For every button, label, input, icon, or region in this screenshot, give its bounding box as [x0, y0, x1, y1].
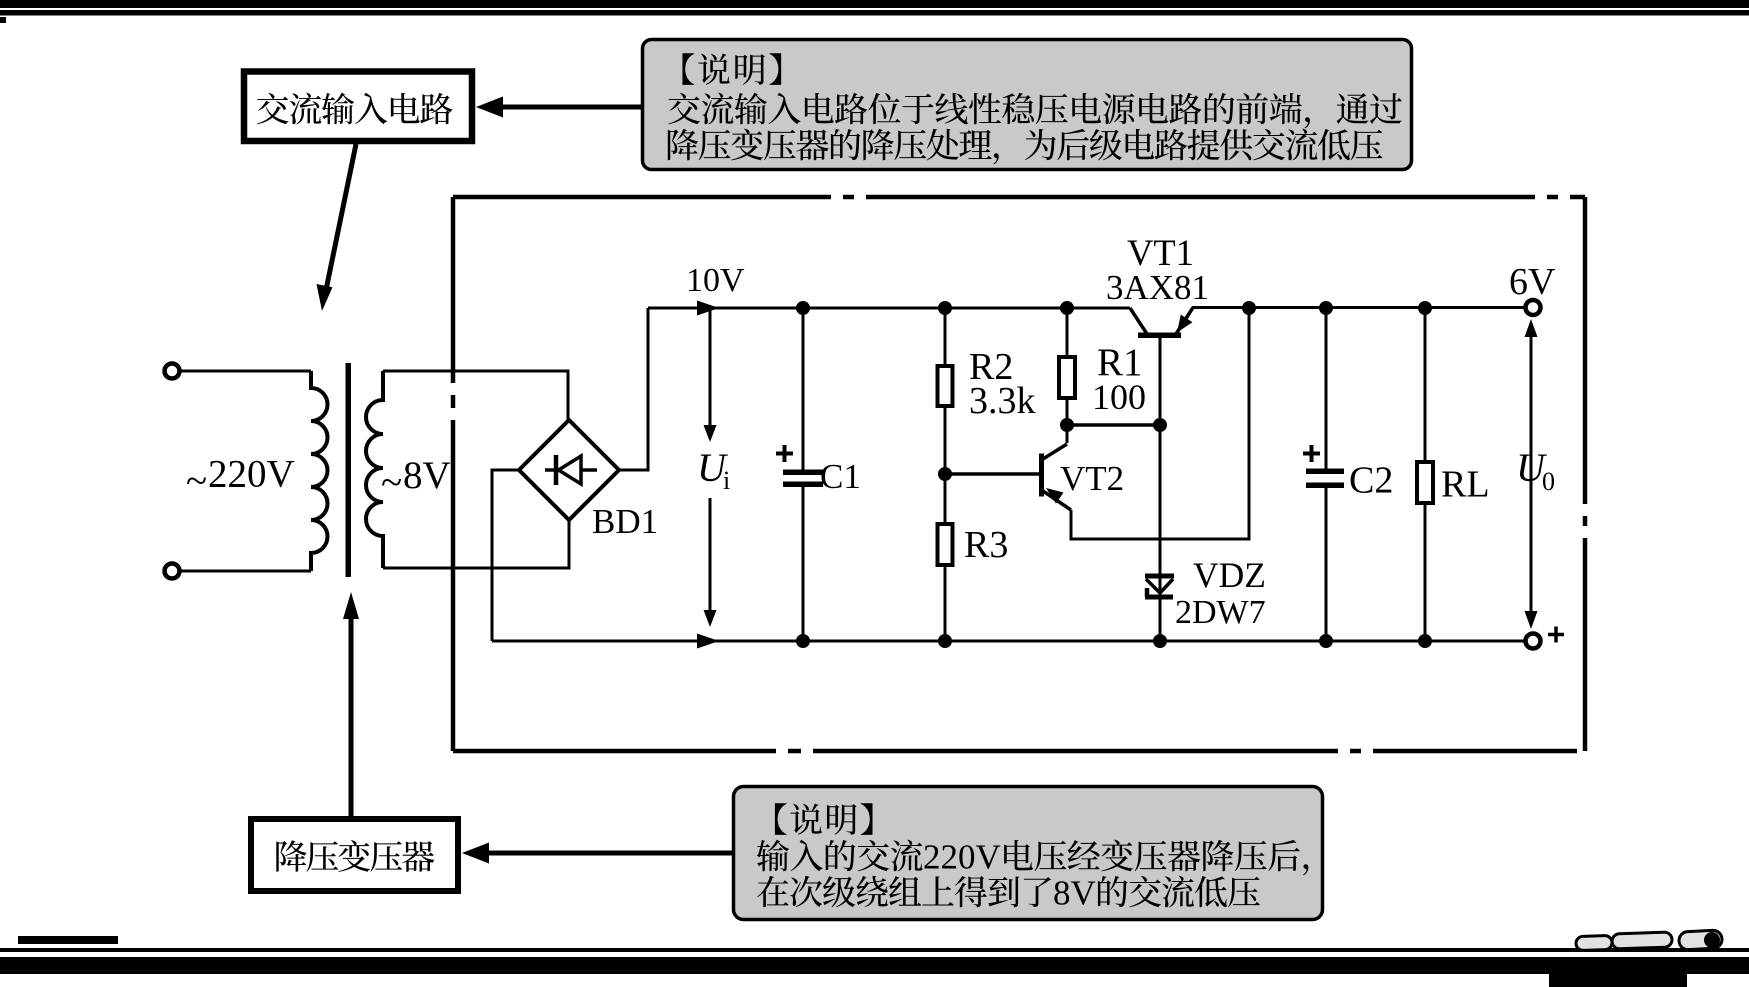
junction dot RL top	[1418, 301, 1432, 315]
wire VT2 base	[945, 472, 1039, 476]
transistor VT2	[1039, 444, 1071, 510]
svg-text:RL: RL	[1441, 464, 1490, 506]
capacitor C1	[783, 308, 823, 641]
svg-text:i: i	[723, 466, 730, 495]
wire R1 bottom to VT1 base line	[1067, 423, 1160, 427]
svg-text:~: ~	[186, 460, 207, 503]
wire R2 chain	[944, 308, 947, 641]
svg-text:BD1: BD1	[592, 502, 658, 541]
resistor R2	[938, 366, 953, 406]
zener diode VDZ	[1145, 573, 1174, 641]
svg-text:C2: C2	[1349, 460, 1393, 502]
wire: secondary bottom to bridge	[383, 519, 569, 568]
top border bar	[0, 0, 1749, 23]
load resistor RL	[1417, 308, 1433, 641]
svg-text:220V: 220V	[923, 838, 1001, 877]
arrow from AC input label to transformer	[317, 144, 357, 311]
arrow from callout 1 to AC input label	[476, 97, 642, 118]
C1 plus sign	[776, 445, 793, 462]
svg-text:0: 0	[1542, 467, 1555, 496]
svg-text:~: ~	[381, 461, 402, 504]
block label box: AC input circuit	[244, 72, 472, 142]
junction dot C2 bottom	[1319, 634, 1333, 648]
Ui arrow upper segment	[704, 308, 717, 442]
junction dot base line	[1153, 418, 1167, 432]
output terminal bottom	[1526, 634, 1541, 649]
wire VT2 emitter loop	[1071, 308, 1249, 539]
svg-text:6V: 6V	[1509, 261, 1556, 303]
top rail arrowhead	[697, 301, 719, 316]
transformer T1 core	[346, 363, 352, 577]
decorative pills bottom right	[1576, 930, 1723, 951]
svg-text:8V: 8V	[1053, 874, 1096, 913]
wire: bridge output to top rail	[619, 308, 648, 470]
AC source terminal top	[165, 364, 180, 379]
svg-text:100: 100	[1092, 377, 1146, 417]
AC source terminal bottom	[165, 564, 180, 579]
junction dot VDZ bottom	[1153, 634, 1167, 648]
output plus sign	[1548, 627, 1564, 643]
wire: top terminal to primary	[180, 370, 311, 373]
svg-text:VT1: VT1	[1127, 232, 1194, 273]
callout box 1 (explanation top)	[643, 40, 1412, 170]
junction dot R1 top	[1060, 301, 1074, 315]
junction dot R3 bottom	[938, 634, 952, 648]
arrow from label 2 up to transformer	[343, 592, 359, 816]
callout box 2 (explanation bottom)	[734, 787, 1323, 920]
wire: secondary top to bridge	[383, 371, 568, 421]
resistor R1 branch	[1059, 308, 1075, 443]
capacitor C2	[1306, 308, 1344, 641]
svg-text:2DW7: 2DW7	[1175, 594, 1266, 631]
transformer T1 primary winding	[311, 371, 328, 571]
svg-text:VT2: VT2	[1060, 459, 1124, 498]
bottom thin rule	[0, 948, 1749, 952]
svg-text:10V: 10V	[686, 262, 745, 299]
svg-text:8V: 8V	[403, 454, 451, 497]
svg-text:3.3k: 3.3k	[969, 380, 1036, 422]
svg-text:C1: C1	[820, 457, 861, 496]
junction dot C2 top	[1319, 301, 1333, 315]
top rail (input side)	[648, 307, 1130, 310]
svg-text:3AX81: 3AX81	[1106, 268, 1209, 307]
bottom rail arrowhead	[697, 634, 719, 649]
junction dot RL bottom	[1418, 634, 1432, 648]
bottom left tick mark	[18, 936, 118, 944]
Ui arrow lower segment	[704, 498, 717, 627]
junction dot R2/R3 mid	[938, 467, 952, 481]
arrow from callout 2 to transformer label	[462, 843, 733, 864]
dash-dot boundary box	[453, 197, 1585, 751]
transformer T1 secondary winding	[366, 371, 383, 568]
junction dot C1 top	[796, 301, 810, 315]
junction dot R1 bottom	[1060, 418, 1074, 432]
junction dot R2 top	[938, 301, 952, 315]
svg-text:R3: R3	[964, 524, 1008, 566]
bottom rail	[492, 640, 1526, 643]
resistor R3	[938, 524, 953, 565]
wire: bottom terminal to primary	[180, 570, 311, 573]
top rail (output side)	[1192, 306, 1526, 309]
C2 plus sign	[1303, 445, 1320, 462]
bottom thick bar	[0, 957, 1749, 987]
Uo double arrow	[1525, 319, 1538, 629]
transistor VT1	[1130, 308, 1193, 339]
svg-text:VDZ: VDZ	[1193, 555, 1266, 595]
wire VT1 base down	[1159, 338, 1162, 573]
output terminal 6V	[1526, 300, 1541, 315]
block label box: step-down transformer	[251, 819, 458, 891]
svg-text:220V: 220V	[208, 453, 295, 496]
wire: bridge negative to bottom rail	[492, 470, 519, 641]
bridge rectifier BD1	[519, 420, 619, 520]
junction dot C1 bottom	[796, 634, 810, 648]
junction dot emitter wire top	[1242, 301, 1256, 315]
